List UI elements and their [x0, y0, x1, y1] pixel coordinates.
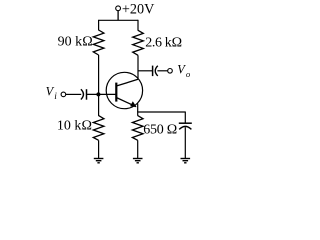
ground 10k	[94, 159, 104, 163]
node base junction	[96, 92, 100, 96]
resistor 90 kOhm	[58, 30, 104, 55]
wire 2.6k to collector	[137, 55, 139, 79]
ground bypass	[181, 159, 191, 163]
resistor 650 Ohm	[132, 116, 177, 141]
terminal Vo	[168, 63, 191, 79]
capacitor C2 output	[153, 66, 158, 77]
svg-text:o: o	[186, 69, 191, 79]
wire supply drop	[117, 11, 119, 21]
svg-text:650 Ω: 650 Ω	[143, 122, 177, 137]
wire cap to Vo terminal	[157, 70, 167, 72]
capacitor C3 bypass	[179, 123, 192, 129]
transistor Q1	[106, 72, 142, 108]
capacitor C1 input	[81, 89, 87, 100]
wire Vi to input cap	[66, 93, 82, 95]
wire collector node to output cap	[138, 70, 153, 72]
svg-text:10 kΩ: 10 kΩ	[57, 118, 92, 133]
wire rail to 90k	[98, 20, 100, 31]
wire 650 to ground	[137, 140, 139, 158]
svg-text:90 kΩ: 90 kΩ	[58, 35, 93, 50]
terminal Vi	[46, 84, 66, 102]
wire rail to 2.6k	[137, 20, 139, 31]
resistor 2.6 kOhm	[133, 30, 182, 55]
resistor 10 kOhm	[57, 116, 104, 141]
svg-text:i: i	[54, 92, 57, 102]
wire bypass cap drop	[184, 112, 186, 124]
svg-text:V: V	[177, 63, 186, 77]
ground emitter	[133, 159, 143, 163]
wire emitter drop	[137, 104, 139, 113]
wire base node to 10k	[98, 94, 100, 116]
svg-text:+20V: +20V	[122, 2, 155, 18]
wire input cap to base node	[87, 93, 117, 95]
wire top rail	[99, 19, 138, 21]
power terminal +20V	[116, 2, 155, 18]
wire emitter node to bypass cap	[138, 111, 186, 113]
wire 90k to base node	[98, 55, 100, 94]
wire bypass cap to ground	[184, 127, 186, 158]
wire emitter node to 650	[137, 112, 139, 116]
svg-text:2.6 kΩ: 2.6 kΩ	[145, 35, 182, 50]
wire 10k to ground	[98, 140, 100, 158]
